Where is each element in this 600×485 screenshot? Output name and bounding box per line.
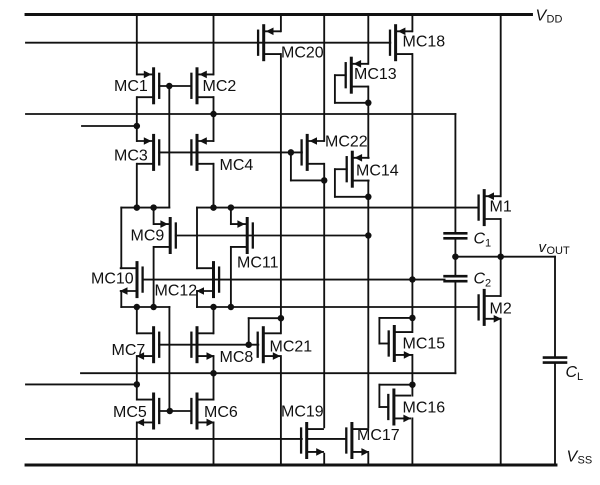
svg-text:MC17: MC17 [357,427,400,444]
svg-text:MC9: MC9 [131,228,165,245]
svg-text:MC15: MC15 [403,336,446,353]
svg-text:MC13: MC13 [354,66,397,83]
svg-text:MC8: MC8 [220,349,254,366]
svg-text:MC18: MC18 [403,34,446,51]
svg-text:MC6: MC6 [204,404,238,421]
svg-text:MC10: MC10 [91,271,134,288]
svg-text:M2: M2 [490,300,512,317]
svg-text:1: 1 [485,238,491,250]
svg-text:SS: SS [578,455,593,467]
svg-text:L: L [577,371,583,383]
svg-text:MC2: MC2 [203,78,237,95]
svg-text:2: 2 [485,278,491,290]
svg-text:MC7: MC7 [112,342,146,359]
svg-text:MC22: MC22 [325,133,368,150]
svg-text:MC14: MC14 [356,163,399,180]
svg-text:MC5: MC5 [113,404,147,421]
svg-text:C: C [474,231,486,248]
svg-text:C: C [474,271,486,288]
svg-text:MC3: MC3 [114,148,148,165]
svg-text:MC21: MC21 [270,339,313,356]
svg-text:MC12: MC12 [155,283,198,300]
svg-text:OUT: OUT [547,245,571,257]
svg-text:MC16: MC16 [403,400,446,417]
svg-text:DD: DD [547,14,563,26]
svg-text:MC1: MC1 [114,78,148,95]
svg-text:MC4: MC4 [220,157,254,174]
svg-text:MC19: MC19 [281,403,324,420]
svg-text:MC11: MC11 [237,255,279,272]
svg-text:C: C [566,364,578,381]
svg-text:M1: M1 [490,198,512,215]
svg-text:MC20: MC20 [281,44,324,61]
